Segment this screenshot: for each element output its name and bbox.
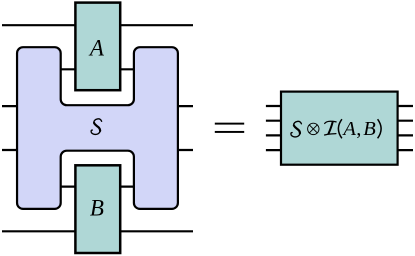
svg-text:A: A bbox=[341, 118, 356, 140]
svg-text:B: B bbox=[90, 195, 104, 220]
svg-text:B: B bbox=[363, 118, 376, 140]
svg-text:,: , bbox=[356, 118, 361, 140]
svg-text:A: A bbox=[88, 36, 105, 61]
